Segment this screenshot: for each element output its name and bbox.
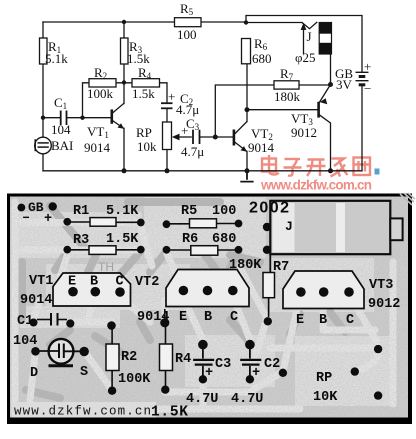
transistor VT3 (319, 85, 331, 124)
svg-text:1.5k: 1.5k (132, 86, 155, 101)
svg-text:100k: 100k (87, 86, 114, 101)
svg-text:R4: R4 (175, 352, 191, 367)
bottom url black (12, 402, 156, 418)
svg-text:100: 100 (212, 204, 236, 219)
capacitor C1 (61, 111, 67, 126)
light zones (18, 197, 390, 406)
svg-text:5.1k: 5.1k (45, 51, 68, 66)
svg-text:C: C (116, 275, 124, 290)
svg-text:VT1: VT1 (29, 274, 53, 289)
svg-text:GB: GB (28, 200, 44, 215)
svg-text:4.7μ: 4.7μ (176, 102, 199, 117)
wire battery to bottom (361, 85, 363, 171)
transistor VT2 (234, 122, 247, 152)
resistor R3 (121, 38, 129, 64)
svg-text:RP: RP (316, 371, 332, 386)
svg-text:VT2: VT2 (135, 275, 159, 290)
svg-text:680: 680 (212, 232, 236, 247)
wire R4 right to C2 (160, 83, 168, 103)
transistor VT2 pcb (166, 270, 249, 307)
svg-text:B: B (90, 275, 98, 290)
capacitor C2 (161, 103, 173, 108)
svg-text:E: E (179, 310, 187, 325)
svg-text:S: S (80, 365, 88, 380)
svg-text:3V: 3V (336, 77, 353, 92)
svg-text:C3: C3 (215, 357, 231, 372)
svg-text:R7: R7 (273, 260, 289, 275)
resistor R2 pcb (106, 344, 119, 371)
resistor R2 (89, 79, 116, 87)
wire R7 right (299, 84, 331, 86)
resistor R5 (175, 18, 202, 27)
svg-text:R5: R5 (181, 204, 197, 219)
svg-text:−: − (364, 81, 371, 96)
battery holder outline (270, 201, 390, 254)
light traces (15, 202, 393, 414)
svg-text:R2: R2 (121, 350, 137, 365)
svg-text:BAI: BAI (51, 138, 73, 153)
wire speaker branch (246, 22, 302, 24)
svg-text:9012: 9012 (291, 125, 317, 140)
wire R2 left (83, 83, 90, 118)
resistor R1 (40, 38, 48, 64)
capacitor C3 pcb (198, 340, 208, 350)
junction dots (41, 20, 333, 174)
wire node to VT2 base (215, 136, 233, 138)
svg-text:4.7U: 4.7U (231, 392, 263, 407)
svg-text:5.1K: 5.1K (106, 204, 139, 219)
wire left rail (42, 22, 44, 171)
wire top right feed (246, 16, 362, 73)
wire VT3 collector down (330, 123, 332, 171)
battery GB (356, 72, 369, 85)
svg-text:+: + (205, 366, 213, 381)
svg-text:www.dzkfw.com.cn: www.dzkfw.com.cn (14, 405, 151, 419)
wire VT2 base node to VT3 base (247, 109, 318, 111)
svg-text:+: + (364, 59, 371, 74)
resistor R6 (242, 39, 251, 64)
capacitor C2 pcb (245, 340, 255, 350)
corner hatch (400, 193, 415, 205)
wire top rail left (43, 21, 246, 23)
svg-text:B: B (319, 313, 327, 328)
svg-text:+: + (44, 212, 52, 227)
photo border frame (7, 194, 410, 197)
svg-text:+: + (168, 89, 175, 104)
microphone pcb (49, 339, 74, 364)
svg-text:9014: 9014 (20, 293, 52, 308)
svg-text:4.7μ: 4.7μ (181, 144, 204, 159)
wire RP bottom (166, 150, 168, 171)
transistor VT3 pcb (283, 271, 364, 309)
svg-text:D: D (30, 366, 38, 381)
resistor R4 (132, 79, 160, 87)
svg-text:C: C (230, 310, 238, 325)
jack J notch (302, 22, 317, 28)
svg-text:10K: 10K (313, 390, 338, 405)
blue artifact (375, 169, 380, 175)
photo frame (10, 196, 410, 419)
noise overlay (10, 196, 408, 418)
svg-text:9012: 9012 (368, 297, 400, 312)
svg-text:100: 100 (177, 27, 197, 42)
wire R2-R4 node (116, 82, 132, 84)
speaker J (319, 23, 331, 55)
svg-text:2002: 2002 (249, 200, 289, 217)
wire VT2 emitter down (246, 152, 248, 171)
watermark line 1: 电子开发网 (red) (262, 155, 370, 177)
svg-text:180k: 180k (274, 89, 301, 104)
svg-text:680: 680 (252, 51, 272, 66)
svg-text:104: 104 (13, 334, 37, 349)
svg-text:VT3: VT3 (369, 278, 393, 293)
svg-text:R1: R1 (73, 204, 89, 219)
wire C2 to RP (166, 109, 168, 123)
svg-text:J: J (285, 219, 293, 234)
RP wiper arrow from C3 (177, 136, 192, 138)
svg-text:B: B (204, 310, 212, 325)
capacitor C3 (193, 130, 200, 144)
wire speaker bottom (330, 54, 332, 85)
svg-text:1.5k: 1.5k (127, 51, 150, 66)
potentiometer RP (163, 122, 172, 150)
svg-text:9014: 9014 (84, 140, 111, 155)
holder edge pads + wire to R7 (269, 254, 271, 273)
svg-text:1.5K: 1.5K (106, 232, 139, 247)
svg-text:R6: R6 (182, 232, 198, 247)
svg-text:J: J (307, 29, 312, 44)
microphone BAI (35, 137, 52, 154)
wire bottom rail (43, 170, 362, 172)
svg-text:100K: 100K (118, 372, 151, 387)
svg-text:www.dzkfw.com.cn: www.dzkfw.com.cn (260, 178, 372, 193)
GB pads (18, 204, 26, 212)
wire R3 top (123, 22, 125, 83)
svg-text:E: E (68, 275, 76, 290)
resistor R7 (274, 81, 299, 89)
wire VT1 collector/emitter verticals (123, 83, 125, 171)
svg-text:C: C (346, 313, 354, 328)
misc pads right (279, 369, 287, 377)
wire C1 branch (43, 117, 112, 119)
svg-text:–: – (22, 211, 30, 226)
svg-text:φ25: φ25 (295, 50, 316, 65)
wire feedback riser (215, 85, 274, 137)
transistor VT1 pcb (53, 273, 131, 306)
mid-gray trace shadows (22, 202, 345, 398)
svg-text:104: 104 (51, 122, 71, 137)
svg-text:C2: C2 (264, 357, 280, 372)
wire C3 to node (200, 136, 216, 138)
svg-text:10k: 10k (137, 139, 157, 154)
wire VT2 collector riser (246, 64, 248, 122)
svg-text:R3: R3 (73, 233, 89, 248)
svg-text:9014: 9014 (248, 140, 275, 155)
resistor R4 pcb (160, 344, 173, 371)
svg-text:RP: RP (136, 125, 152, 140)
svg-text:+: + (252, 366, 260, 381)
svg-text:E: E (296, 313, 304, 328)
ground (240, 171, 253, 182)
J arrow (303, 27, 305, 54)
svg-text:4.7U: 4.7U (186, 392, 218, 407)
transistor VT1 (112, 103, 124, 128)
